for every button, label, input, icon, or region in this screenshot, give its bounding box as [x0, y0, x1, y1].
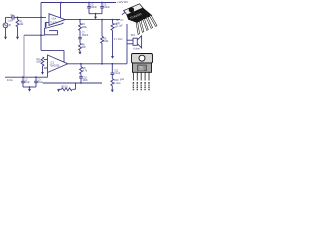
- svg-text:4.7 ohm: 4.7 ohm: [114, 39, 122, 41]
- svg-text:+12V DC: +12V DC: [117, 0, 128, 4]
- svg-text:100nF: 100nF: [82, 35, 89, 37]
- svg-text:100nF: 100nF: [103, 7, 110, 9]
- svg-text:U1A: U1A: [52, 17, 57, 20]
- svg-text:100k: 100k: [82, 27, 88, 29]
- svg-text:0.1uF: 0.1uF: [114, 73, 121, 75]
- svg-text:100k: 100k: [103, 41, 109, 43]
- svg-text:IN: IN: [9, 25, 12, 27]
- svg-text:44.1k: 44.1k: [7, 80, 14, 82]
- svg-text:TDA2030: TDA2030: [49, 65, 60, 68]
- svg-text:R9 10: R9 10: [61, 87, 68, 89]
- svg-text:TL072: TL072: [50, 22, 57, 24]
- svg-text:SP1: SP1: [131, 35, 136, 37]
- svg-text:10uF: 10uF: [37, 82, 43, 84]
- svg-text:10uF: 10uF: [24, 82, 30, 84]
- svg-text:100n: 100n: [83, 80, 89, 82]
- svg-text:0.1uF: 0.1uF: [117, 26, 124, 28]
- svg-text:100nF: 100nF: [90, 7, 97, 9]
- svg-text:1.0uF: 1.0uF: [7, 20, 14, 22]
- svg-text:R7 4.7: R7 4.7: [117, 20, 125, 22]
- svg-text:1 ohm: 1 ohm: [114, 83, 121, 85]
- svg-text:100k: 100k: [36, 61, 42, 63]
- svg-text:8 ohm: 8 ohm: [133, 48, 140, 50]
- svg-text:2030: 2030: [138, 68, 144, 71]
